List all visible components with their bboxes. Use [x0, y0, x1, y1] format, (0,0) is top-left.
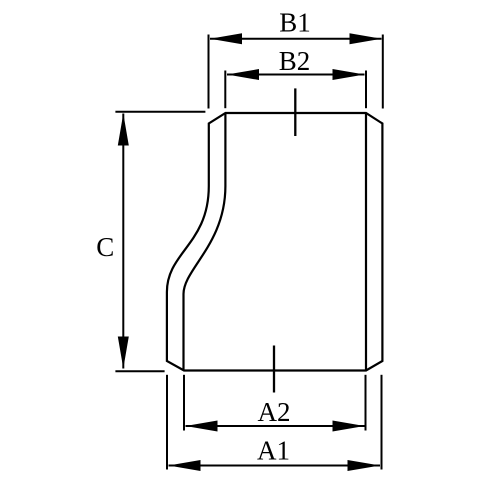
centerline bottom port	[273, 346, 275, 393]
centerline top port	[294, 88, 296, 136]
arrowhead B1 right	[350, 33, 382, 44]
extension line A1 right	[381, 375, 383, 470]
extension line A2 right	[365, 375, 367, 431]
svg-text:B2: B2	[279, 46, 311, 76]
extension line B1 right	[382, 35, 384, 109]
extension line B2 right	[365, 71, 367, 109]
arrowhead C bottom	[118, 337, 129, 369]
arrowhead B1 left	[210, 33, 242, 44]
dimension line B2	[227, 74, 365, 76]
arrowhead C top	[118, 114, 129, 146]
dimension line A1	[169, 465, 381, 467]
arrowhead B2 right	[333, 69, 365, 80]
extension line B1 left	[208, 35, 210, 109]
svg-text:A2: A2	[258, 397, 291, 427]
extension line B2 left	[224, 71, 226, 109]
extension line C top	[115, 111, 205, 113]
reducer body outline	[167, 113, 383, 371]
arrowhead A2 right	[333, 421, 365, 432]
extension line A1 left	[166, 375, 168, 470]
dimension line B1	[210, 38, 382, 40]
reducer inner right edge	[365, 113, 367, 371]
extension line A2 left	[183, 375, 185, 431]
extension line C bottom	[115, 370, 164, 372]
arrowhead A1 right	[348, 460, 381, 471]
svg-text:A1: A1	[257, 436, 290, 466]
arrowhead A2 left	[186, 421, 218, 432]
reducer inner left edge (S-curve)	[184, 113, 226, 371]
arrowhead A1 left	[169, 460, 201, 471]
arrowhead B2 left	[227, 69, 259, 80]
svg-text:B1: B1	[279, 8, 311, 38]
dimension line A2	[186, 425, 365, 427]
dimension line C	[122, 114, 124, 369]
svg-text:C: C	[96, 232, 114, 262]
